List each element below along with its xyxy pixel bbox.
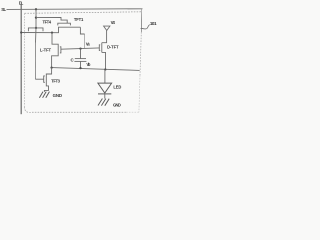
- wire gate spine lower faint part: [34, 43, 36, 80]
- node TFT4 gate dot: [35, 27, 37, 29]
- pixel box right dashed edge: [140, 32, 141, 75]
- wire TFT1 faint descent: [84, 34, 86, 48]
- node capacitor-Vb junction dot: [79, 67, 81, 69]
- wire TFT1 drain descent to node Va: [80, 27, 84, 34]
- svg-text:DL: DL: [19, 0, 24, 5]
- wire D-TFT drain lead to VS: [102, 31, 107, 43]
- wire main channel run DL to TFT1: [21, 27, 80, 33]
- svg-text:VS: VS: [111, 20, 116, 25]
- wire LED cathode stem: [104, 94, 106, 99]
- ground left slashes: [39, 92, 49, 98]
- svg-text:TFT3: TFT3: [51, 79, 60, 84]
- transistor L-TFT gate bracket: [60, 47, 61, 53]
- capacitor C top plate: [75, 58, 86, 60]
- svg-text:L-TFT: L-TFT: [40, 48, 52, 53]
- capacitor C bottom plate: [74, 60, 86, 62]
- pixel box top dashed edge: [25, 12, 142, 14]
- wire node Vb line: [52, 68, 140, 71]
- svg-text:D-TFT: D-TFT: [107, 45, 119, 50]
- svg-text:C: C: [71, 57, 75, 62]
- pixel box right edge solid top part: [140, 9, 143, 32]
- transistor D-TFT gate bracket: [98, 45, 101, 51]
- node LED junction dot: [104, 68, 106, 70]
- node DL junction: [20, 31, 22, 33]
- wire TFT1 gate lead with jog: [36, 17, 67, 23]
- wire D-TFT source lead down: [102, 52, 106, 69]
- transistor TFT2 gate bracket: [44, 76, 45, 82]
- pixel box bottom dashed edge and rounded corner: [126, 111, 139, 113]
- wire SL select line: [7, 8, 143, 11]
- svg-text:Va: Va: [86, 41, 91, 46]
- leader line for 101: [141, 25, 150, 29]
- wire DL data line vertical: [20, 5, 22, 115]
- wire TFT2 gate lead: [35, 78, 43, 80]
- svg-text:TFT1: TFT1: [74, 17, 84, 22]
- svg-text:TFT4: TFT4: [43, 20, 52, 25]
- capacitor C bottom lead: [80, 62, 82, 69]
- node Va capacitor junction: [79, 47, 81, 49]
- ground right slashes: [98, 99, 109, 106]
- transistor L-TFT channel and leads: [52, 33, 59, 68]
- diode LED triangle: [98, 83, 112, 93]
- power symbol VS triangle: [104, 26, 110, 30]
- svg-text:Vb: Vb: [86, 62, 90, 67]
- wire LED anode stem: [104, 70, 106, 84]
- svg-text:SL: SL: [1, 7, 6, 12]
- transistor D-TFT channel bar: [101, 43, 103, 53]
- svg-text:LED: LED: [113, 84, 121, 89]
- node L-TFT branch dot: [51, 31, 53, 33]
- diode LED cathode bar: [98, 93, 111, 95]
- node dot2 TFT1 gate branch: [35, 16, 37, 18]
- transistor TFT2 channel and leads: [44, 68, 51, 92]
- capacitor C top lead: [80, 49, 82, 59]
- transistor TFT1 gate bracket: [58, 23, 71, 25]
- pixel boundary dashed box 101: [25, 12, 142, 113]
- node SL-branch junction: [35, 8, 37, 10]
- svg-text:101: 101: [150, 21, 157, 26]
- svg-text:GND: GND: [53, 93, 62, 98]
- node Vb left dot: [50, 66, 52, 68]
- wire gate spine from SL down to TFT2 gate: [35, 9, 38, 42]
- transistor TFT4 gate bracket: [28, 28, 43, 31]
- svg-text:GND: GND: [113, 103, 121, 108]
- wire node Va line: [61, 48, 99, 49]
- pixel box left dashed edge: [24, 13, 26, 107]
